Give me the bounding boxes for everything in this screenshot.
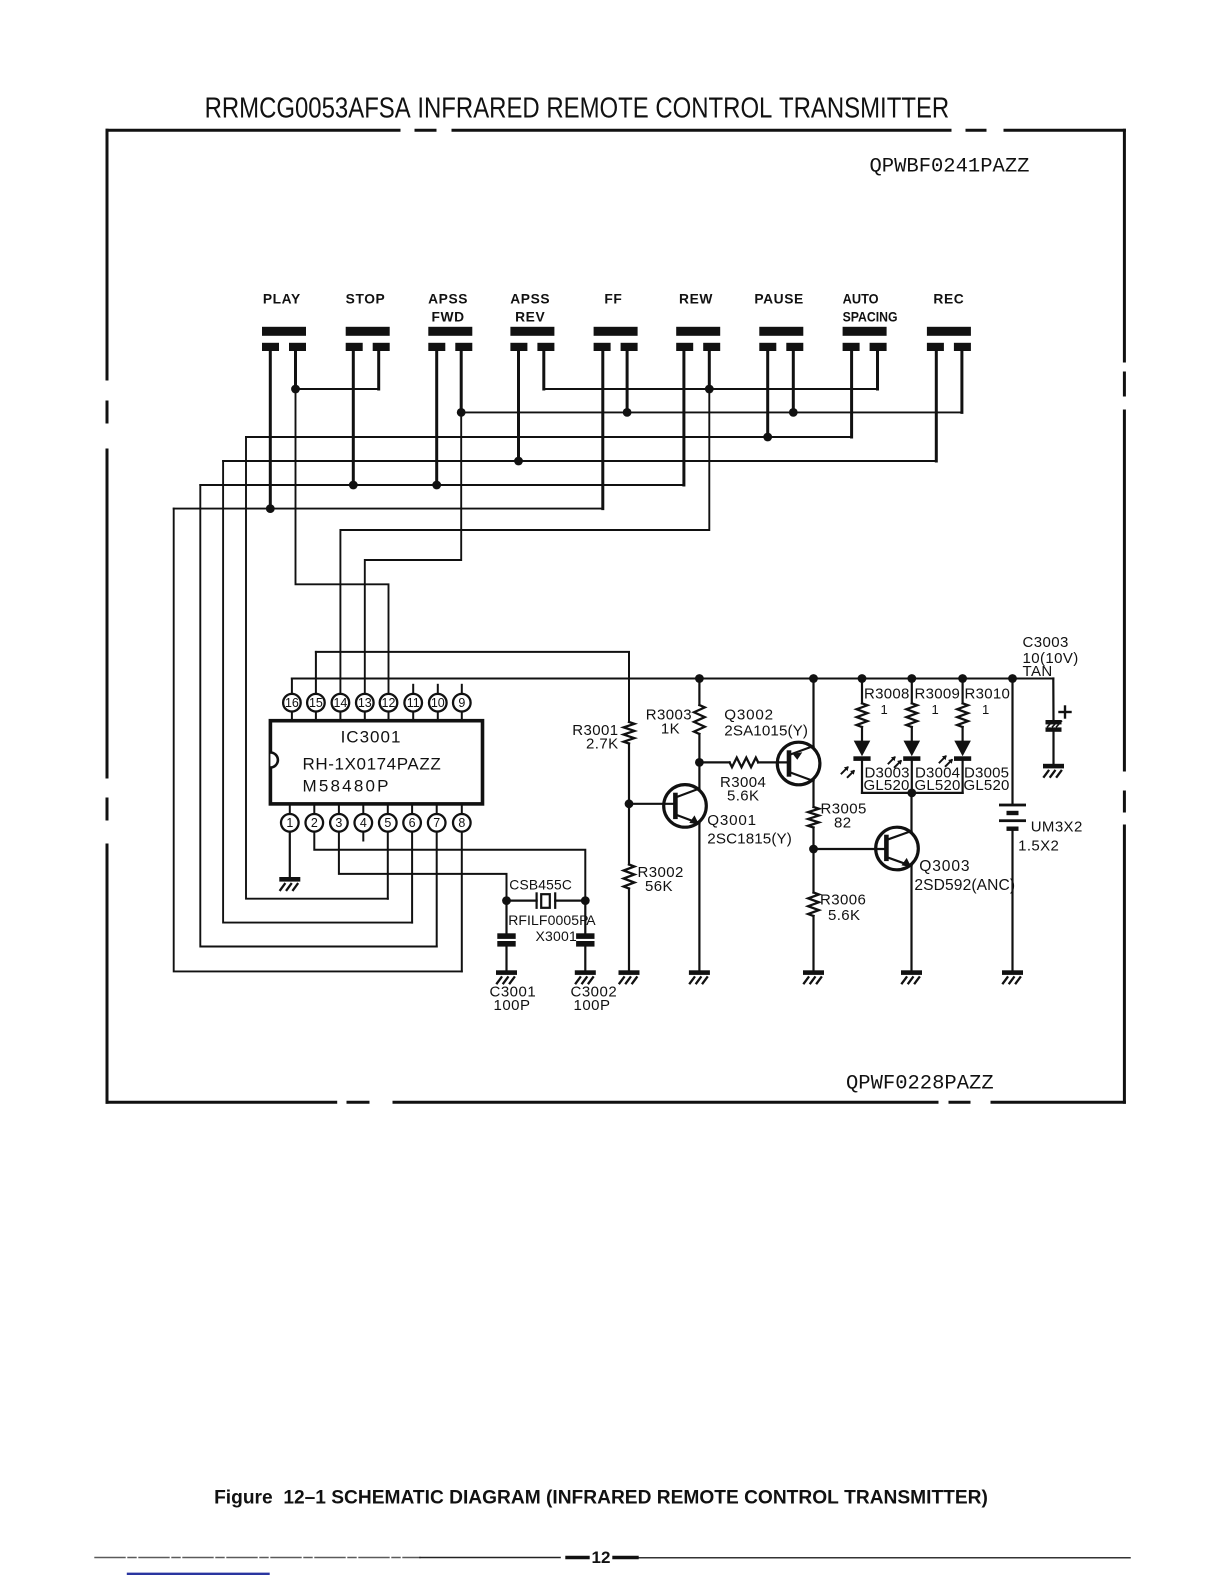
- svg-text:SPACING: SPACING: [843, 310, 898, 325]
- svg-text:12: 12: [592, 1548, 611, 1567]
- svg-text:6: 6: [409, 816, 416, 830]
- svg-text:15: 15: [309, 696, 323, 710]
- svg-text:FF: FF: [604, 292, 622, 307]
- svg-text:13: 13: [358, 696, 372, 710]
- svg-text:PAUSE: PAUSE: [754, 292, 804, 307]
- svg-text:M58480P: M58480P: [303, 777, 391, 796]
- svg-text:R3008: R3008: [864, 686, 910, 703]
- svg-text:Q3002: Q3002: [724, 707, 774, 724]
- svg-text:RFILF0005P: RFILF0005P: [508, 912, 588, 928]
- svg-text:1.5X2: 1.5X2: [1018, 838, 1059, 855]
- svg-text:QPWBF0241PAZZ: QPWBF0241PAZZ: [870, 156, 1030, 179]
- svg-text:1: 1: [982, 702, 989, 717]
- svg-text:GL520: GL520: [915, 777, 961, 794]
- svg-text:8: 8: [458, 816, 465, 830]
- svg-text:A: A: [586, 912, 596, 928]
- svg-text:16: 16: [285, 696, 299, 710]
- svg-text:REW: REW: [679, 292, 713, 307]
- svg-text:14: 14: [333, 696, 347, 710]
- svg-text:10: 10: [431, 696, 445, 710]
- svg-text:AUTO: AUTO: [843, 292, 879, 307]
- svg-text:PLAY: PLAY: [263, 292, 301, 307]
- svg-text:C3003: C3003: [1023, 634, 1069, 651]
- svg-text:IC3001: IC3001: [341, 728, 402, 747]
- svg-text:5.6K: 5.6K: [828, 907, 860, 924]
- svg-text:Figure 12–1 SCHEMATIC DIAGRAM: Figure 12–1 SCHEMATIC DIAGRAM (INFRARED …: [214, 1488, 988, 1509]
- svg-text:APSS: APSS: [510, 292, 550, 307]
- svg-text:Q3003: Q3003: [919, 858, 970, 875]
- svg-text:RH-1X0174PAZZ: RH-1X0174PAZZ: [303, 755, 442, 774]
- svg-text:1: 1: [881, 702, 888, 717]
- svg-text:X3001: X3001: [536, 928, 577, 944]
- svg-text:11: 11: [407, 696, 420, 710]
- svg-text:FWD: FWD: [431, 310, 464, 325]
- svg-text:3: 3: [335, 816, 342, 830]
- svg-text:RRMCG0053AFSA INFRARED REMOTE: RRMCG0053AFSA INFRARED REMOTE CONTROL TR…: [205, 93, 950, 125]
- svg-text:4: 4: [360, 816, 367, 830]
- svg-text:2: 2: [311, 816, 318, 830]
- svg-text:2SD592(ANC): 2SD592(ANC): [914, 877, 1015, 894]
- svg-text:R3010: R3010: [965, 686, 1011, 703]
- svg-text:1: 1: [932, 702, 939, 717]
- svg-text:TAN: TAN: [1023, 663, 1053, 680]
- svg-text:100P: 100P: [494, 997, 531, 1014]
- svg-text:1: 1: [286, 816, 293, 830]
- svg-text:56K: 56K: [645, 878, 673, 895]
- svg-text:REV: REV: [515, 310, 545, 325]
- svg-text:APSS: APSS: [428, 292, 468, 307]
- svg-text:GL520: GL520: [964, 777, 1010, 794]
- svg-text:2SA1015(Y): 2SA1015(Y): [724, 723, 808, 740]
- svg-text:GL520: GL520: [864, 777, 910, 794]
- svg-text:UM3X2: UM3X2: [1031, 819, 1083, 836]
- svg-text:2SC1815(Y): 2SC1815(Y): [707, 831, 792, 848]
- svg-text:STOP: STOP: [346, 292, 386, 307]
- svg-text:9: 9: [458, 696, 465, 710]
- svg-text:CSB455C: CSB455C: [509, 878, 572, 893]
- svg-text:82: 82: [834, 815, 852, 832]
- svg-text:2.7K: 2.7K: [586, 736, 618, 753]
- svg-text:R3006: R3006: [820, 892, 866, 909]
- svg-text:QPWF0228PAZZ: QPWF0228PAZZ: [846, 1072, 994, 1095]
- svg-text:5.6K: 5.6K: [727, 788, 759, 805]
- svg-text:100P: 100P: [574, 997, 611, 1014]
- svg-text:12: 12: [382, 696, 396, 710]
- svg-text:REC: REC: [933, 292, 964, 307]
- svg-text:R3009: R3009: [915, 686, 961, 703]
- svg-text:5: 5: [384, 816, 391, 830]
- svg-text:1K: 1K: [661, 721, 680, 738]
- svg-text:Q3001: Q3001: [707, 812, 757, 829]
- svg-text:7: 7: [433, 816, 440, 830]
